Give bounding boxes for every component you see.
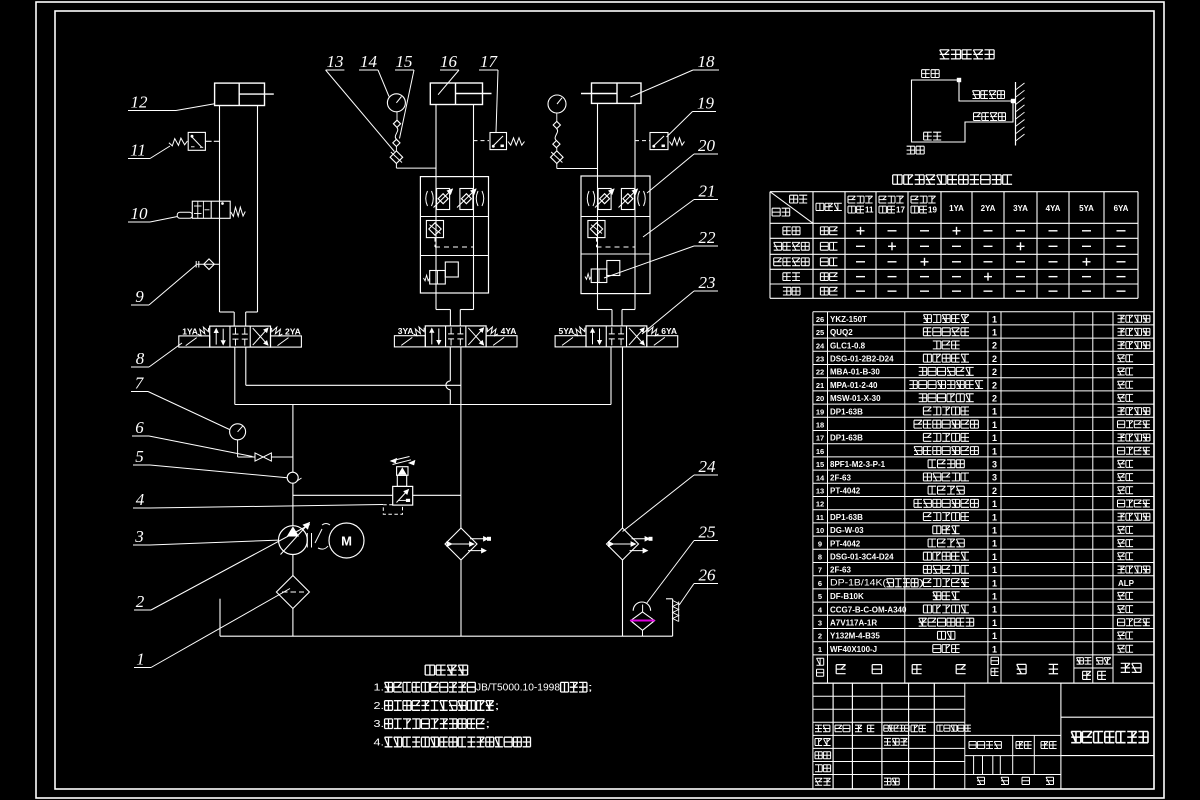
svg-text:24: 24	[699, 457, 717, 476]
label forward work	[973, 91, 1005, 99]
svg-text:21: 21	[699, 182, 716, 201]
svg-text:7: 7	[818, 566, 822, 575]
row 5 label	[783, 287, 800, 295]
svg-text:5YA: 5YA	[1079, 204, 1094, 213]
svg-text:17: 17	[480, 52, 499, 71]
svg-text:6: 6	[818, 579, 822, 588]
title block right verticals	[1060, 683, 1062, 789]
test coupling upper 2	[553, 121, 560, 128]
svg-text:M: M	[341, 534, 352, 549]
hose 15	[395, 127, 398, 139]
svg-text:2YA: 2YA	[981, 204, 996, 213]
relief valve 4 vent arrows	[391, 457, 410, 462]
DCV left solenoid	[394, 336, 425, 347]
svg-text:MSW-01-X-30: MSW-01-X-30	[830, 394, 881, 403]
svg-text:2: 2	[136, 592, 145, 611]
wire gauge to cylinder 2	[395, 164, 397, 169]
svg-text:12: 12	[131, 93, 149, 112]
pressure relay 17	[474, 140, 490, 142]
label stop	[907, 146, 925, 154]
svg-text:5YA: 5YA	[559, 326, 575, 336]
row 2 label	[774, 242, 810, 250]
svg-text:19: 19	[697, 94, 715, 113]
DCV right spring	[272, 327, 283, 336]
svg-text:10: 10	[131, 204, 149, 223]
svg-text:DSG-01-2B2-D24: DSG-01-2B2-D24	[830, 355, 894, 364]
svg-text:3: 3	[818, 619, 822, 628]
row 3 label	[774, 258, 810, 266]
svg-text:1: 1	[992, 526, 997, 536]
header pressure relay 11	[848, 196, 873, 203]
DCV left position arrows	[592, 328, 594, 344]
svg-text:18: 18	[816, 421, 824, 430]
svg-text:DP1-63B: DP1-63B	[830, 434, 863, 443]
tank	[219, 599, 221, 637]
pressure line from pump	[234, 347, 236, 404]
svg-text:13: 13	[816, 487, 824, 496]
DCV right spring	[487, 327, 498, 336]
svg-text:1YA: 1YA	[182, 326, 198, 336]
drain plug 9	[197, 263, 220, 265]
svg-text:14: 14	[816, 473, 825, 482]
work cycle wall	[1015, 82, 1017, 146]
svg-text:DP1-63B: DP1-63B	[830, 513, 863, 522]
neck to valve 23b	[597, 294, 599, 310]
pilot check valve	[588, 221, 605, 238]
coupling	[306, 533, 308, 548]
svg-text:4YA: 4YA	[501, 326, 517, 336]
pump riser	[292, 405, 294, 473]
svg-text:8PF1-M2-3-P-1: 8PF1-M2-3-P-1	[830, 460, 886, 469]
DCV left position arrows	[215, 329, 217, 345]
svg-text:2: 2	[992, 380, 997, 390]
svg-text:9: 9	[818, 539, 822, 548]
label fast forward	[922, 70, 940, 78]
svg-text:YKZ-150T: YKZ-150T	[830, 315, 867, 324]
DCV centre position	[611, 327, 613, 334]
variable pump 3	[279, 526, 308, 555]
travel valve 10	[177, 212, 192, 218]
DCV right solenoid	[486, 336, 517, 347]
DCV right solenoid	[647, 336, 678, 347]
header action	[772, 208, 790, 216]
DCV body	[586, 326, 647, 347]
svg-text:3YA: 3YA	[1013, 204, 1028, 213]
solenoid table diagonal	[770, 192, 813, 224]
svg-text:QUQ2: QUQ2	[830, 328, 853, 337]
solenoid table title	[893, 175, 1012, 184]
cooler 24b	[607, 528, 639, 560]
relief valve 4 pilot stage	[397, 475, 406, 486]
air breather magenta element	[630, 620, 655, 622]
valve2 pressure riser with bridge	[449, 347, 451, 381]
svg-text:19: 19	[816, 407, 824, 416]
svg-text:23: 23	[816, 355, 824, 364]
svg-text:4.: 4.	[374, 737, 385, 748]
svg-text:14: 14	[360, 52, 378, 71]
svg-text:MPA-01-2-40: MPA-01-2-40	[830, 381, 878, 390]
svg-text:DF-B10K: DF-B10K	[830, 592, 864, 601]
svg-text:20: 20	[816, 394, 824, 403]
svg-text:8: 8	[818, 553, 822, 562]
svg-text:8: 8	[136, 349, 145, 368]
hose 2	[555, 129, 558, 141]
drawing title	[1071, 732, 1148, 743]
title block right horizontals	[1061, 716, 1154, 718]
svg-text:1: 1	[992, 433, 997, 443]
svg-text:;: ;	[588, 683, 593, 694]
svg-text:20: 20	[698, 136, 716, 155]
svg-text:1: 1	[992, 578, 997, 588]
DCV left spring	[198, 327, 209, 336]
svg-text:18: 18	[698, 52, 716, 71]
svg-text:GLC1-0.8: GLC1-0.8	[830, 341, 866, 350]
header pressure relay 19	[911, 196, 936, 203]
svg-text:MBA-01-B-30: MBA-01-B-30	[830, 368, 880, 377]
svg-text:DP-1B/14K(: DP-1B/14K(	[830, 578, 886, 588]
svg-text:1: 1	[992, 565, 997, 575]
svg-text:11: 11	[865, 206, 874, 215]
pressure gauge for cylinder 18	[548, 95, 566, 113]
svg-text:Y132M-4-B35: Y132M-4-B35	[830, 632, 880, 641]
wire to relief valve 4	[293, 494, 393, 496]
label fast return	[924, 132, 942, 140]
pressure switch 11	[169, 138, 188, 146]
svg-text:;: ;	[494, 701, 499, 712]
level gauge 26	[666, 598, 673, 600]
pressure gauge 14	[387, 94, 405, 112]
suction filter 1	[276, 576, 309, 609]
svg-text:1: 1	[992, 512, 997, 522]
DCV centre position	[234, 328, 236, 335]
svg-text:12: 12	[816, 500, 824, 509]
svg-text:13: 13	[327, 52, 344, 71]
svg-text:1YA: 1YA	[949, 204, 964, 213]
svg-text:2F-63: 2F-63	[830, 566, 851, 575]
svg-text:1: 1	[992, 420, 997, 430]
svg-text:4YA: 4YA	[1046, 204, 1061, 213]
cylinder 12 piston rod	[239, 93, 274, 95]
svg-text:1: 1	[992, 592, 997, 602]
svg-text:3: 3	[134, 527, 144, 546]
svg-text:26: 26	[699, 566, 717, 585]
svg-text:19: 19	[928, 206, 937, 215]
cylinder 18 body	[597, 103, 599, 176]
gauge 7	[230, 424, 246, 440]
check ball 5	[287, 472, 298, 483]
one-way throttle valve right	[621, 189, 634, 210]
row 1 label	[783, 227, 800, 235]
DCV right spring	[648, 327, 659, 336]
DCV left spring	[574, 327, 585, 336]
work cycle title	[940, 50, 994, 59]
test coupling upper	[393, 120, 400, 127]
svg-text:17: 17	[816, 434, 824, 443]
svg-text:6YA: 6YA	[661, 326, 677, 336]
wire gauge to cylinder 3	[556, 164, 558, 169]
svg-text:DP1-63B: DP1-63B	[830, 407, 863, 416]
title block middle horizontals	[965, 734, 1061, 736]
svg-text:1: 1	[992, 644, 997, 654]
svg-text:1: 1	[992, 499, 997, 509]
cylinder 18 piston rod	[581, 93, 617, 95]
svg-text:16: 16	[440, 52, 458, 71]
pilot dashed line	[596, 238, 598, 247]
svg-text:1: 1	[992, 328, 997, 338]
svg-text:5: 5	[818, 592, 822, 601]
svg-text:25: 25	[699, 523, 716, 542]
svg-text:PT-4042: PT-4042	[830, 539, 861, 548]
cooler 24a	[445, 528, 477, 560]
svg-text:10: 10	[816, 526, 824, 535]
svg-text:23: 23	[699, 273, 716, 292]
shutoff valve 6	[238, 456, 255, 458]
svg-text:1: 1	[992, 407, 997, 417]
svg-text:2: 2	[992, 354, 997, 364]
stage mark cells	[1012, 735, 1014, 774]
valve2 return drop to cooler	[460, 347, 462, 528]
check valve 13	[390, 151, 403, 164]
one-way throttle valve left	[437, 189, 450, 210]
DCV right position cross	[468, 328, 483, 345]
svg-text:16: 16	[816, 447, 824, 456]
cylinder 12 cap	[215, 83, 265, 105]
svg-text:ALP: ALP	[1118, 579, 1135, 588]
svg-text:3YA: 3YA	[398, 326, 414, 336]
return line	[245, 347, 247, 385]
svg-text:1: 1	[992, 552, 997, 562]
BOM header labels	[817, 658, 824, 665]
pilot dashed line	[434, 238, 436, 247]
cylinder 18 cap	[592, 83, 642, 103]
pressure relief element	[585, 274, 591, 280]
svg-text:WF40X100-J: WF40X100-J	[830, 645, 877, 654]
motor 2	[329, 523, 364, 558]
svg-text:2: 2	[992, 486, 997, 496]
valve3 return drop to cooler	[622, 347, 624, 528]
modular valve block outline	[581, 176, 650, 294]
svg-text:2.: 2.	[374, 701, 385, 712]
test coupling lower 2	[553, 141, 560, 148]
BOM table grid	[813, 311, 1154, 313]
wire relief to cooler riser	[413, 494, 461, 496]
cylinder 12 body	[219, 106, 221, 313]
relief valve 4 body	[393, 486, 413, 505]
cylinder 16 piston rod	[456, 93, 492, 95]
air breather 25	[633, 602, 650, 611]
cylinder 16 body	[435, 105, 437, 177]
svg-text:PT-4042: PT-4042	[830, 487, 861, 496]
sheet count labels	[977, 777, 985, 784]
svg-text:22: 22	[699, 228, 717, 247]
svg-text:2: 2	[992, 367, 997, 377]
svg-text:DG-W-03: DG-W-03	[830, 526, 864, 535]
svg-text:11: 11	[816, 513, 824, 522]
svg-text:;: ;	[485, 719, 490, 730]
svg-text:17: 17	[896, 206, 905, 215]
BOM header sub-divider	[1074, 667, 1113, 669]
title block row labels	[815, 725, 830, 732]
pressure relief element	[424, 275, 430, 281]
svg-text:1: 1	[992, 314, 997, 324]
work cycle path	[912, 80, 1014, 142]
header element	[790, 195, 808, 203]
svg-text:15: 15	[396, 52, 413, 71]
pilot check valve	[426, 221, 443, 238]
svg-text:3: 3	[992, 460, 997, 470]
pressure relay 19	[635, 140, 650, 142]
DCV body	[425, 326, 486, 347]
DCV right position cross	[253, 328, 268, 345]
DCV right position cross	[629, 328, 644, 345]
modular valve block outline	[420, 177, 488, 293]
svg-text:1.: 1.	[374, 683, 385, 694]
svg-text:15: 15	[816, 460, 824, 469]
DCV right solenoid	[271, 336, 302, 347]
svg-text:1: 1	[992, 446, 997, 456]
svg-text:11: 11	[130, 141, 146, 160]
technical requirements title	[425, 665, 467, 675]
svg-text:1: 1	[992, 539, 997, 549]
svg-text:2F-63: 2F-63	[830, 473, 851, 482]
header travel valve	[816, 203, 842, 210]
svg-text:1: 1	[136, 650, 145, 669]
solenoid table grid	[769, 192, 771, 299]
svg-text:26: 26	[816, 315, 824, 324]
svg-text:CCG7-B-C-OM-A340: CCG7-B-C-OM-A340	[830, 605, 907, 614]
svg-text:4: 4	[136, 490, 145, 509]
suction line	[292, 555, 294, 576]
svg-text:21: 21	[816, 381, 824, 390]
svg-text:1: 1	[992, 605, 997, 615]
svg-text:6YA: 6YA	[1114, 204, 1129, 213]
header pressure relay 17	[879, 196, 904, 203]
DCV left position arrows	[431, 328, 433, 344]
svg-text:1: 1	[818, 645, 822, 654]
label reverse work	[974, 113, 1006, 121]
svg-text:A7V117A-1R: A7V117A-1R	[830, 619, 877, 628]
svg-text:22: 22	[816, 368, 824, 377]
stage mark labels	[969, 742, 1001, 749]
svg-text:6: 6	[135, 418, 144, 437]
svg-text:2: 2	[992, 341, 997, 351]
title block outline	[813, 682, 965, 684]
DCV left spring	[413, 327, 424, 336]
relief valve 4 drain dashed box	[383, 505, 402, 515]
neck to valve 23a	[435, 293, 437, 310]
svg-text:5: 5	[135, 447, 144, 466]
svg-text:25: 25	[816, 328, 824, 337]
svg-text:JB/T5000.10-1998: JB/T5000.10-1998	[476, 683, 560, 694]
svg-text:DSG-01-3C4-D24: DSG-01-3C4-D24	[830, 553, 894, 562]
svg-text:1: 1	[992, 631, 997, 641]
cylinder 16 cap	[430, 83, 482, 105]
DCV left solenoid	[179, 336, 210, 347]
check valve 2	[551, 151, 564, 164]
svg-text:3.: 3.	[374, 719, 385, 730]
svg-text:24: 24	[816, 341, 825, 350]
svg-text:2: 2	[818, 632, 822, 641]
air breather filter diamond	[631, 612, 655, 630]
svg-text:1: 1	[992, 618, 997, 628]
test coupling lower	[393, 139, 400, 146]
svg-text:2: 2	[992, 394, 997, 404]
DCV body	[210, 326, 271, 347]
one-way throttle valve left	[598, 189, 611, 210]
svg-text:3: 3	[992, 473, 997, 483]
row 4 label	[783, 273, 800, 281]
one-way throttle valve right	[460, 189, 473, 210]
svg-text:2YA: 2YA	[285, 326, 301, 336]
svg-text:9: 9	[135, 287, 144, 306]
DCV centre position	[450, 327, 452, 334]
DCV left solenoid	[555, 336, 586, 347]
